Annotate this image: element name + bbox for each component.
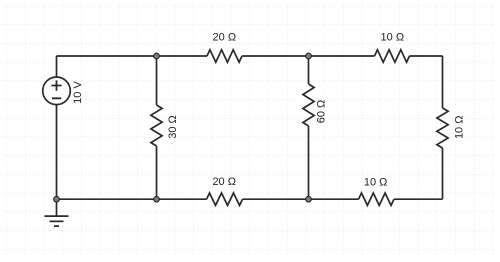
wire mid rail 1 lower <box>156 146 158 199</box>
wire mid rail 2 lower <box>308 126 310 199</box>
wire R1 to R2 <box>242 55 375 57</box>
resistor R1 20 ohm (top) <box>207 50 242 62</box>
wire left rail lower <box>56 105 58 200</box>
wire right rail upper <box>442 56 444 108</box>
node G (bottom-left) junction <box>54 196 60 202</box>
wire top-left to R1 <box>57 55 208 57</box>
svg-text:60 Ω: 60 Ω <box>316 100 328 124</box>
svg-text:20 Ω: 20 Ω <box>213 32 237 44</box>
ground <box>45 199 69 226</box>
wire right rail lower <box>442 148 444 199</box>
svg-text:30 Ω: 30 Ω <box>167 115 179 139</box>
svg-text:20 Ω: 20 Ω <box>212 176 236 188</box>
resistor R7 60 ohm (vertical) <box>303 84 314 126</box>
wire bottom left segment <box>57 198 207 200</box>
wire mid rail 1 upper <box>156 56 158 105</box>
wire bottom right segment <box>394 198 443 200</box>
wire R4 to node D <box>243 198 359 200</box>
wire mid rail 2 upper <box>308 56 310 84</box>
resistor R3 10 ohm (right vertical) <box>437 108 448 148</box>
node D (bottom, node 2) junction <box>306 196 312 202</box>
svg-text:10 Ω: 10 Ω <box>364 177 388 189</box>
svg-text:10 Ω: 10 Ω <box>381 32 405 44</box>
voltage source V1 10 V <box>43 77 71 105</box>
resistor R4 10 ohm (bottom) <box>359 193 395 205</box>
node A (top, node 1) junction <box>154 53 160 59</box>
node C (bottom, node 1) junction <box>154 196 160 202</box>
resistor R5 20 ohm (bottom) <box>207 193 243 205</box>
svg-text:10 V: 10 V <box>72 81 84 104</box>
resistor R2 10 ohm (top right) <box>375 50 410 62</box>
wire R2 to top-right corner <box>410 55 443 57</box>
wire left rail upper <box>56 56 58 77</box>
svg-text:10 Ω: 10 Ω <box>453 116 465 140</box>
resistor R6 30 ohm (vertical) <box>151 105 162 146</box>
node B (top, node 2) junction <box>306 53 312 59</box>
